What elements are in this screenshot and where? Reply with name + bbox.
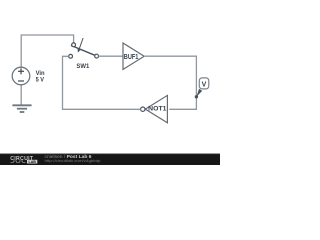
ground (12, 105, 31, 112)
switch SW1 lever (71, 45, 95, 55)
inverter NOT1 (141, 95, 168, 122)
switch SW1 (69, 38, 99, 58)
wire: Vin- down to ground (20, 85, 22, 105)
voltage source V1 (Vin) (12, 67, 30, 85)
switch SW1 top terminal (72, 43, 76, 47)
svg-text:http://circuitlab.com/c4gkbdp: http://circuitlab.com/c4gkbdp (45, 158, 101, 163)
switch SW1 actuation arrow (79, 38, 83, 50)
wire: NOT1 output left, up to SW1 left throw (63, 56, 141, 109)
svg-text:BUF1: BUF1 (124, 54, 139, 61)
switch SW1 left throw terminal (69, 54, 73, 58)
svg-text:V: V (202, 81, 207, 88)
switch SW1 right terminal (95, 54, 99, 58)
node: voltmeter junction dot (195, 95, 198, 98)
wire: Vin+ up and across to SW1 top terminal (21, 35, 73, 68)
wire: SW1 right terminal to BUF1 input (99, 55, 123, 57)
svg-text:5 V: 5 V (36, 77, 45, 84)
svg-text:SW1: SW1 (76, 63, 89, 70)
svg-text:NOT1: NOT1 (148, 106, 167, 113)
footer bar (0, 154, 220, 166)
svg-text:LAB: LAB (29, 160, 37, 164)
buffer BUF1 (123, 43, 144, 69)
voltmeter probe V (196, 78, 209, 97)
wire: BUF1 output right, down and to NOT1 input (144, 56, 196, 109)
